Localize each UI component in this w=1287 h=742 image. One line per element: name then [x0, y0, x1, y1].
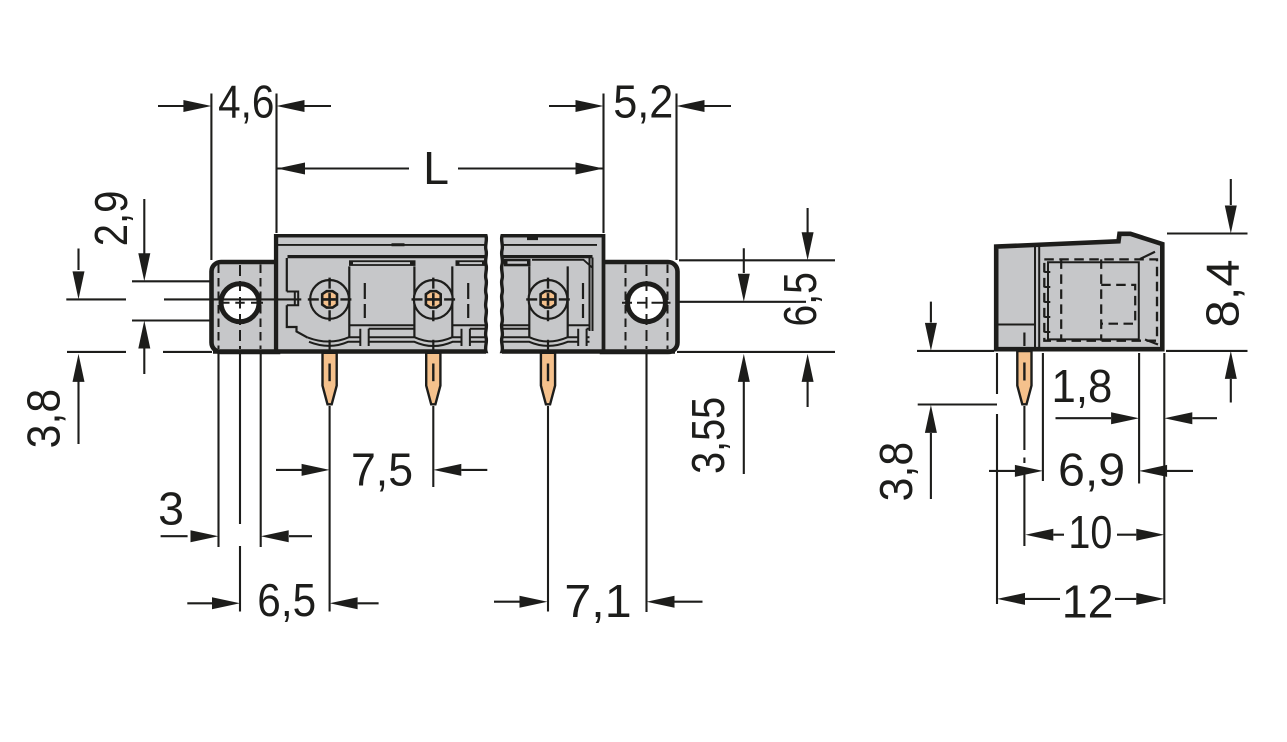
mounting hole right [628, 284, 666, 322]
flange hidden dashed lines left [219, 265, 261, 350]
svg-text:12: 12 [1062, 576, 1114, 628]
ref line L4 [67, 351, 212, 353]
keying notch [287, 292, 298, 306]
ref line L1 [132, 280, 211, 282]
bottom channel lower line part1 [309, 342, 486, 346]
1,8 arrows [1111, 412, 1139, 424]
body top edge thick [277, 234, 604, 237]
dim 3 lines [161, 535, 312, 537]
rib tab 3 [578, 329, 586, 346]
connector body right part (broken) [502, 236, 604, 352]
chamber walls pin2 [414, 266, 452, 337]
svg-text:1,8: 1,8 [1052, 360, 1113, 413]
dimensions side view [917, 179, 1248, 604]
left chain 2,9 [143, 199, 145, 374]
svg-text:L: L [423, 142, 449, 194]
mold marks [392, 239, 539, 245]
hidden dashes in blocks [365, 283, 583, 318]
bottom channel upper line part1 [308, 337, 487, 341]
dim 10 lines [1053, 534, 1136, 536]
solder pin 3 [541, 353, 555, 405]
slot bar 2 [456, 260, 487, 266]
body right edge [602, 234, 606, 352]
ext right edge down [1163, 353, 1165, 604]
connector body left part (broken) [277, 236, 487, 352]
svg-text:6,5: 6,5 [257, 575, 316, 626]
top strip thin line [278, 244, 597, 246]
svg-text:5,2: 5,2 [613, 75, 673, 128]
dim 4,6 lines [158, 105, 331, 107]
3,8 side arrows [925, 323, 937, 351]
dim 12 lines [1025, 598, 1136, 600]
7,5 arrows [302, 464, 330, 476]
part2 inner frame line [532, 260, 593, 268]
right refs of left view [677, 260, 835, 352]
ext line flange right top [675, 94, 677, 261]
pin circle 2 [412, 278, 456, 322]
svg-text:3: 3 [158, 482, 184, 534]
side pin hidden dash [1023, 333, 1025, 347]
6,5 bottom arrows [212, 597, 240, 609]
pin circle 1 [308, 278, 352, 322]
mounting hole left [221, 284, 259, 322]
ext line body left top [275, 94, 277, 234]
bottom channel upper line part2 [502, 337, 590, 341]
ext pin center down [1023, 406, 1025, 546]
pin center ticks through channel [330, 340, 548, 351]
side inner solid rect [1048, 262, 1139, 339]
arrowheads left view [73, 100, 814, 609]
arrowheads side view [925, 206, 1237, 605]
2,9 arrows [138, 253, 150, 281]
cavity left wall with keying notch [287, 258, 308, 338]
labels left view [19, 75, 827, 628]
side left section line [996, 324, 1035, 326]
3 arrows [191, 530, 219, 542]
ext line flange left top [210, 94, 212, 261]
body bottom edge thick [213, 349, 675, 354]
block bottom lines [349, 324, 589, 326]
5,2 arrows [576, 100, 604, 112]
ext body left edge down [996, 353, 998, 604]
dim 1,8 lines [1056, 417, 1218, 419]
bottom ext lines [217, 353, 219, 547]
right chain 3,55 [743, 248, 745, 474]
dim 7,1 lines [494, 601, 703, 603]
body left edge [274, 234, 277, 352]
channel shoulder lines [369, 328, 590, 330]
solder pin 1 [323, 353, 337, 405]
L arrows [277, 163, 305, 175]
flange hidden dashed lines right [626, 265, 668, 350]
ref line L3 [132, 319, 211, 321]
svg-text:7,5: 7,5 [351, 444, 413, 496]
dim 7,5 lines [276, 469, 487, 471]
slot bar 3 [504, 259, 531, 266]
svg-text:2,9: 2,9 [86, 191, 137, 247]
rib tab 2 [462, 329, 470, 346]
right chain 6,5 [807, 208, 809, 407]
side dashed cavity rect [1044, 259, 1157, 340]
hole right center lines [646, 265, 648, 349]
slot bar 1 [349, 260, 416, 266]
labels side view [871, 259, 1249, 627]
12 arrows [997, 593, 1025, 605]
side dashed verticals [1061, 259, 1101, 340]
svg-text:7,1: 7,1 [564, 576, 631, 628]
bottom ref line side [917, 350, 1248, 352]
cavity top edge [288, 255, 593, 258]
chamber walls pin1 [348, 266, 350, 337]
side small dashed rect [1101, 285, 1135, 324]
svg-text:3,8: 3,8 [871, 442, 922, 501]
6,5 right arrows [802, 232, 814, 260]
dim 6,9 lines [989, 470, 1193, 472]
left flange [212, 262, 279, 352]
3,55 arrows [738, 274, 750, 302]
4,6 arrows [183, 100, 211, 112]
ext 1139.1 down [1138, 353, 1140, 484]
svg-text:8,4: 8,4 [1198, 259, 1250, 327]
ext 1042.9 down [1042, 353, 1044, 481]
ext line body right top [602, 94, 604, 234]
hole left center lines [239, 265, 241, 349]
rib tab 1 [360, 329, 368, 346]
side body [996, 234, 1162, 349]
10 arrows [1025, 529, 1053, 541]
side diagonal dashes [1140, 252, 1158, 345]
side divider double line [1035, 245, 1039, 350]
side solder pin [1017, 351, 1031, 404]
svg-text:6,5: 6,5 [775, 272, 827, 326]
6,9 arrows [1015, 465, 1043, 477]
solder pin 2 [426, 353, 440, 405]
svg-text:4,6: 4,6 [218, 77, 274, 128]
side ladder dashes [1044, 272, 1050, 332]
pin circle 3 [526, 278, 570, 322]
cavity right wall double [590, 258, 593, 332]
chain 3,8 side [930, 302, 932, 499]
right flange [602, 262, 678, 352]
8,4 arrows [1225, 206, 1237, 234]
svg-text:3,55: 3,55 [683, 397, 735, 474]
ref line L2 [66, 298, 301, 300]
pin tip ref line [918, 403, 997, 405]
svg-text:10: 10 [1068, 507, 1112, 559]
dim L line [277, 167, 604, 169]
dim 6,5 bottom lines [187, 602, 378, 604]
chain 8,4 [1230, 179, 1232, 403]
svg-text:6,9: 6,9 [1058, 445, 1125, 497]
bottom channel lower line part2 [502, 342, 590, 346]
svg-text:3,8: 3,8 [19, 389, 70, 448]
3,8 arrows [73, 271, 85, 299]
top ref line 8,4 [1167, 232, 1248, 234]
7,1 arrows [520, 596, 548, 608]
chamber walls pin3 [529, 266, 567, 337]
dim 5,2 lines [549, 105, 731, 107]
left chain 3,8 [77, 249, 79, 445]
